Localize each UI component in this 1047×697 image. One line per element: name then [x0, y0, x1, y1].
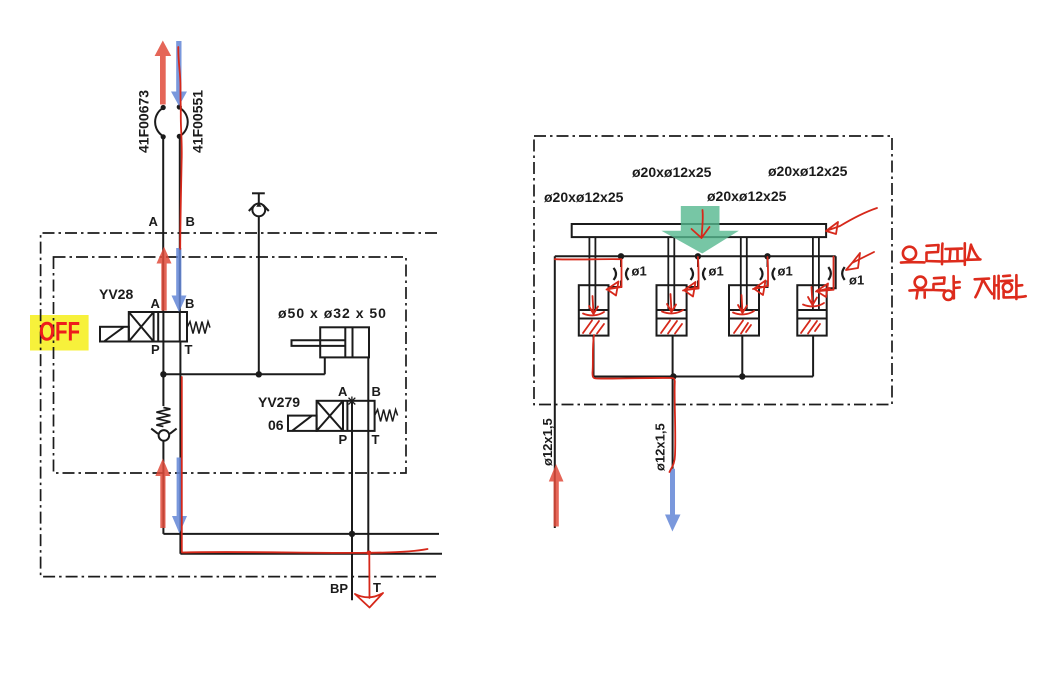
wire: pilot line from P junction to cylinder cap end [163, 357, 324, 374]
quick-disconnect coupling (lines 41F00673/41F00551) [155, 108, 188, 137]
wire: port P of YV28 down to check valve [162, 342, 164, 407]
wire: test point stem down to pilot line [258, 216, 260, 374]
flow arrow red up (below check valve) [155, 459, 170, 529]
junction dot: orifice 2 at supply gallery [695, 253, 701, 259]
flow arrow red up (line 41F00673) [155, 41, 172, 105]
orifice 4 restrictor symbol [828, 267, 844, 280]
svg-text:P: P [339, 432, 348, 447]
orifice 2 restrictor symbol [691, 268, 706, 280]
red trace: supply gallery to orifice 1 [555, 259, 622, 287]
red hatch in cylinder 2 [661, 321, 682, 334]
wire: below check valve to bottom supply line [162, 441, 164, 534]
svg-text:T: T [373, 580, 381, 595]
korean annotation: syllable O (오) [901, 247, 925, 263]
piston rod of cylinder 2 [668, 237, 674, 310]
flow arrow blue down (line 41F00551) [171, 41, 187, 106]
junction dot: BP line at bottom supply line [349, 531, 355, 537]
junction dot: orifice 1 at supply gallery [618, 253, 624, 259]
wire: cylinder 3 cap port down [741, 336, 743, 377]
green highlight arrow (flow in) [661, 206, 739, 254]
red hatch in cylinder 1 [583, 321, 604, 334]
junction dots at coupling [161, 104, 182, 139]
wire: cylinder 1 cap port down [593, 336, 595, 377]
piston rod of cylinder 1 [589, 237, 595, 310]
red hatch in cylinder 4 [801, 321, 820, 334]
svg-text:ø12x1,5: ø12x1,5 [653, 423, 668, 471]
flow arrow blue down (right return riser) [665, 469, 681, 532]
wire: left supply riser ø12x1,5 [554, 256, 556, 528]
korean annotation: syllable HAN (한) [1001, 275, 1026, 299]
flow arrow red up (above YV28 port A) [157, 247, 172, 311]
svg-text:ø12x1,5: ø12x1,5 [540, 418, 555, 466]
red press arrow on piston 2 [662, 294, 683, 313]
wire: cylinder rod end down through valve YV279 to return [367, 357, 369, 553]
wire: gallery right end drop to orifice 4 [827, 256, 836, 288]
solenoid coil of YV279 [288, 416, 317, 431]
wire: line A from coupling to valve YV28 port A [162, 136, 164, 312]
return spring of YV279 [375, 410, 398, 422]
flow arrow red up (right supply riser) [549, 464, 564, 527]
flow arrow blue down (T return) [172, 458, 187, 534]
inner enclosure dash-dot box (left valve block) [54, 257, 407, 473]
red arrowhead at T outlet [355, 593, 383, 608]
svg-text:41F00551: 41F00551 [190, 90, 206, 153]
svg-text:ø50 x ø32 x 50: ø50 x ø32 x 50 [278, 305, 387, 321]
red trace: orifice 3 [756, 257, 768, 289]
red arrow to orifice 4 [846, 252, 874, 270]
cylinder 2 ø20xø12x25 [657, 285, 687, 335]
wire: orifice 1 drop line [609, 256, 622, 287]
cylinder ø50 x ø32 x 50 [292, 327, 370, 357]
svg-text:06: 06 [268, 417, 284, 433]
svg-text:A: A [149, 214, 159, 229]
red arrowhead at orifice 2 [683, 282, 697, 297]
red trace: flow along line B through coupling [178, 47, 182, 249]
piston rod of cylinder 4 [813, 237, 819, 310]
svg-text:BP: BP [330, 581, 348, 596]
outer enclosure dash-dot box (left manifold) [41, 233, 437, 577]
wire: YV279 port A/P line down to BP port [351, 401, 353, 601]
red arrowhead at orifice 3 [753, 281, 767, 296]
junction dot: cylinder 2 line at return gallery [670, 373, 676, 379]
check valve with spring [151, 408, 176, 441]
red press arrow on piston 1 [583, 296, 604, 315]
red hatch in cylinder 3 [734, 321, 751, 334]
red arrow inside green arrow [692, 210, 710, 238]
red trace: orifice 4 [833, 257, 835, 290]
svg-text:A: A [338, 384, 348, 399]
svg-text:ø20xø12x25: ø20xø12x25 [544, 189, 624, 205]
svg-text:ø1: ø1 [849, 273, 864, 288]
korean annotation: syllable YU (유) [910, 277, 933, 299]
flow arrow blue down (above YV28 port B) [172, 248, 187, 312]
solenoid coil of YV28 [100, 327, 129, 342]
svg-text:OFF: OFF [39, 317, 80, 347]
wire: orifice 2 drop line [687, 256, 698, 287]
red trace: T return below YV28 [181, 377, 183, 552]
svg-text:B: B [185, 296, 194, 311]
orifice star mark on YV279 port A [349, 397, 356, 406]
piston rod of cylinder 3 [741, 237, 747, 310]
OFF state highlight [30, 315, 89, 351]
svg-text:ø20xø12x25: ø20xø12x25 [768, 163, 848, 179]
svg-text:41F00673: 41F00673 [136, 90, 152, 153]
korean annotation: syllable SEU (스) [967, 245, 981, 260]
red arrowhead at orifice 4 [816, 284, 834, 298]
enclosure dash-dot box (right cylinder block) [534, 136, 892, 405]
svg-text:ø1: ø1 [709, 264, 724, 279]
wire: line B from coupling to valve YV28 port B [179, 136, 181, 312]
wire: cap-end return gallery (horizontal) [594, 376, 814, 378]
orifice 1 restrictor symbol [614, 268, 629, 280]
svg-text:YV28: YV28 [99, 286, 133, 302]
korean annotation: syllable RI (리) [927, 244, 943, 265]
red trace: down T stub [368, 553, 370, 598]
red press arrow on piston 3 [733, 295, 754, 314]
red trace: orifice 2 [686, 257, 699, 290]
junction dot: P line at pilot branch [160, 371, 166, 377]
wire: bottom supply line (horizontal) [163, 533, 439, 535]
junction dot: test point stem at pilot line [256, 371, 262, 377]
svg-text:B: B [186, 214, 195, 229]
junction dot: orifice 3 at supply gallery [764, 253, 770, 259]
red arrowhead at orifice 1 [607, 282, 622, 296]
svg-text:ø20xø12x25: ø20xø12x25 [632, 164, 712, 180]
wire: rod-side supply gallery [555, 255, 836, 257]
junction dot: cylinder 3 line at return gallery [739, 373, 745, 379]
test point (gauge port) symbol [249, 193, 269, 216]
solenoid valve YV279 [317, 401, 375, 431]
red trace: cylinder 1 to return riser [593, 335, 676, 472]
svg-text:ø1: ø1 [778, 264, 793, 279]
svg-text:ø1: ø1 [632, 264, 647, 279]
red arrow to manifold bar end [826, 208, 877, 234]
svg-text:B: B [372, 384, 381, 399]
red trace: along bottom return line [182, 549, 428, 553]
svg-text:ø20xø12x25: ø20xø12x25 [707, 188, 787, 204]
wire: bottom return line (horizontal) [180, 553, 442, 555]
korean annotation: syllable JE (제) [975, 276, 999, 299]
cylinder 1 ø20xø12x25 [579, 285, 609, 335]
svg-text:T: T [185, 342, 193, 357]
red junction dot on return line [367, 551, 372, 556]
wire: port T of YV28 down to bottom return line [179, 342, 181, 554]
korean annotation: syllable RYANG (량) [934, 276, 960, 300]
return spring of YV28 [187, 322, 210, 334]
solenoid valve YV28 [129, 312, 187, 342]
cylinder 3 ø20xø12x25 [729, 285, 759, 335]
orifice 3 restrictor symbol [760, 268, 775, 280]
red press arrow on piston 4 [803, 287, 824, 306]
korean annotation: syllable PI (피) [944, 243, 965, 264]
wire: cylinder 4 cap port down [812, 336, 814, 377]
svg-text:A: A [151, 296, 161, 311]
svg-text:YV279: YV279 [258, 394, 300, 410]
svg-text:P: P [151, 342, 160, 357]
wire: cylinder 2 cap port down / return riser ø12x1,5 [672, 336, 674, 469]
cylinder 4 ø20xø12x25 [797, 285, 826, 335]
wire: orifice 3 drop line [759, 256, 768, 287]
manifold bar (right circuit) [572, 224, 826, 237]
svg-text:T: T [372, 432, 380, 447]
